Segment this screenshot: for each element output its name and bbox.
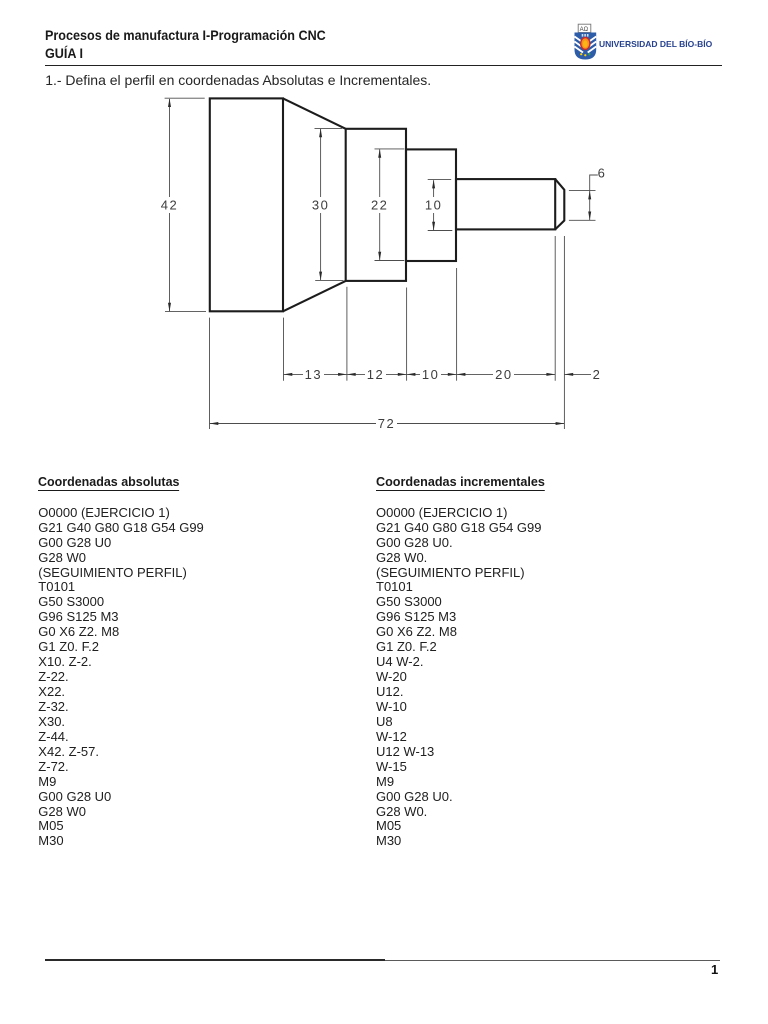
bottom rule left segment bbox=[45, 959, 385, 961]
profile: shaft d10 bbox=[456, 179, 555, 229]
svg-text:22: 22 bbox=[371, 198, 388, 213]
svg-text:20: 20 bbox=[495, 367, 512, 382]
dim 10 extension top bbox=[428, 179, 452, 181]
dim 22 line bbox=[379, 150, 381, 261]
right column code bbox=[376, 506, 542, 850]
profile: big cylinder d42 bbox=[210, 98, 283, 311]
ext at 564.4 bbox=[563, 236, 565, 429]
dim 30 extension top bbox=[315, 127, 343, 129]
right column heading bbox=[376, 475, 545, 491]
ext at 283.5 bbox=[283, 318, 285, 381]
profile: cylinder d22 bbox=[406, 149, 456, 261]
dim 6 line and leader bbox=[590, 175, 598, 220]
dim 10 line bbox=[433, 180, 435, 230]
arrowheads dim 10b bbox=[407, 373, 416, 376]
svg-text:6: 6 bbox=[598, 166, 607, 181]
ext at 406.6 bbox=[406, 288, 408, 381]
svg-text:13: 13 bbox=[305, 367, 322, 382]
profile: chamfered tip d6 bbox=[555, 179, 564, 229]
ext at 555 bbox=[554, 236, 556, 381]
svg-text:30: 30 bbox=[312, 198, 329, 213]
dim 13 line bbox=[284, 373, 347, 375]
left column heading bbox=[38, 475, 179, 491]
top rule bbox=[45, 65, 722, 67]
dim 30 extension bottom bbox=[315, 279, 343, 281]
ext at 456.6 bbox=[456, 268, 458, 381]
dim 22 extension bottom bbox=[375, 260, 405, 262]
arrowheads dim 42 bbox=[168, 98, 171, 107]
arrowheads dim 22 bbox=[378, 149, 381, 158]
svg-text:72: 72 bbox=[378, 416, 395, 431]
dim 42 extension bottom bbox=[165, 311, 206, 313]
bottom rule right segment bbox=[385, 960, 720, 961]
dim 22 extension top bbox=[375, 148, 405, 150]
arrowheads dim 6 bbox=[588, 191, 591, 200]
dim 42 extension top bbox=[165, 97, 205, 99]
arrowhead dim 2 bbox=[564, 373, 573, 376]
profile: taper bottom edge bbox=[283, 281, 346, 311]
university logo text bbox=[599, 40, 712, 49]
arrowheads dim 30 bbox=[319, 128, 322, 137]
svg-text:2: 2 bbox=[593, 367, 602, 382]
arrowheads dim 10 bbox=[432, 180, 435, 189]
header title line 2 bbox=[45, 46, 83, 60]
ext at 209.5 bbox=[209, 318, 211, 429]
svg-text:10: 10 bbox=[422, 367, 439, 382]
arrowheads dim 72 bbox=[210, 422, 219, 425]
arrowheads dim 13 bbox=[284, 373, 293, 376]
arrowheads dim 12 bbox=[347, 373, 356, 376]
svg-text:12: 12 bbox=[367, 367, 384, 382]
dim 20 line bbox=[457, 373, 556, 375]
dim 42 line bbox=[169, 99, 171, 311]
profile: cylinder d30 bbox=[346, 129, 406, 281]
dim 2 line bbox=[564, 373, 591, 375]
dim 6 extension bottom bbox=[569, 219, 596, 221]
university logo crest bbox=[573, 23, 598, 61]
arrowheads dim 20 bbox=[457, 373, 466, 376]
dim 30 line bbox=[320, 129, 322, 280]
instruction line bbox=[45, 73, 431, 87]
dim 10 extension bottom bbox=[428, 230, 453, 232]
dim 12 line bbox=[347, 373, 407, 375]
left column code bbox=[38, 506, 204, 850]
profile: taper top edge bbox=[283, 98, 346, 128]
svg-text:10: 10 bbox=[425, 198, 442, 213]
dim 10b line bbox=[407, 373, 457, 375]
dim 6 extension top bbox=[569, 190, 596, 192]
page number bbox=[711, 963, 718, 976]
ext at 346.9 bbox=[346, 287, 348, 381]
technical drawing bbox=[0, 0, 768, 460]
svg-text:42: 42 bbox=[161, 198, 178, 213]
dim 72 line bbox=[210, 423, 565, 425]
header title line 1 bbox=[45, 28, 326, 42]
